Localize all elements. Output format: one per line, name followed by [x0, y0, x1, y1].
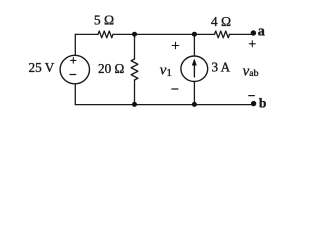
- current source arrowhead: [192, 58, 197, 65]
- resistor R2 20ohm zigzag: [131, 59, 138, 80]
- current source arrow shaft: [193, 64, 195, 77]
- wire bottom rail: [75, 104, 253, 106]
- wire current source branch upper: [193, 34, 195, 55]
- svg-text:a: a: [258, 24, 265, 40]
- junction node dot bottom of 20ohm: [132, 102, 137, 107]
- v1 minus sign: [172, 88, 178, 90]
- voltage source plus sign: [71, 58, 76, 63]
- wire current source branch lower: [193, 82, 195, 105]
- junction node dot top of 20ohm: [132, 32, 137, 37]
- svg-text:b: b: [259, 95, 267, 110]
- wire top right segment: [194, 33, 214, 35]
- resistor R3 4ohm zigzag: [215, 31, 230, 38]
- resistor R1 5ohm zigzag: [98, 31, 113, 38]
- vab minus sign: [249, 95, 255, 97]
- voltage source V1 25V circle: [60, 55, 89, 84]
- wire 20ohm branch lower: [134, 80, 136, 105]
- svg-text:25 V: 25 V: [29, 60, 55, 75]
- svg-text:v1: v1: [160, 63, 172, 79]
- v1 plus sign: [172, 42, 179, 48]
- wire left branch lower: [74, 84, 76, 104]
- wire to node a: [230, 33, 254, 35]
- node a terminal dot: [251, 30, 256, 35]
- junction node dot bottom of current source: [192, 102, 197, 107]
- voltage source minus sign: [70, 74, 76, 76]
- svg-text:vab: vab: [243, 63, 259, 79]
- svg-text:4 Ω: 4 Ω: [211, 14, 231, 29]
- vab plus sign: [249, 41, 255, 47]
- svg-text:3 A: 3 A: [212, 60, 231, 75]
- wire top-left segment: [75, 33, 98, 35]
- svg-text:20 Ω: 20 Ω: [98, 61, 124, 76]
- wire 20ohm branch upper: [134, 34, 136, 59]
- junction node dot top of current source: [192, 32, 197, 37]
- svg-text:5 Ω: 5 Ω: [94, 13, 114, 28]
- current source I1 3A circle: [181, 56, 208, 82]
- wire left branch upper: [74, 34, 76, 55]
- node b terminal dot: [251, 101, 256, 106]
- wire top middle segment: [113, 33, 194, 35]
